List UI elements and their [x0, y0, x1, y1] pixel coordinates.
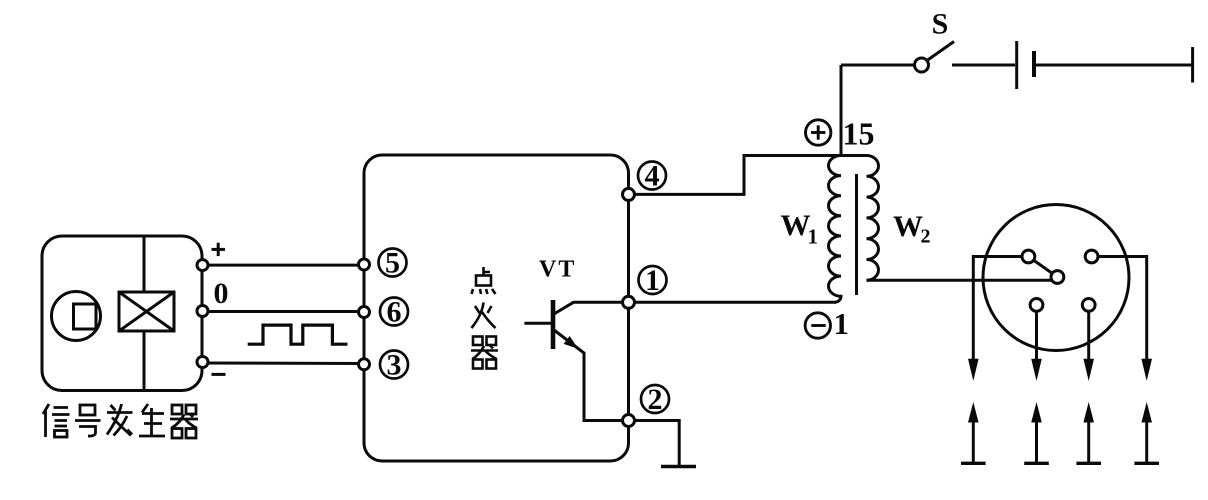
battery positive plate — [1015, 41, 1018, 89]
rotor arm — [1028, 257, 1057, 278]
terminal 2 — [623, 415, 635, 427]
svg-text:VT: VT — [539, 257, 576, 283]
distributor contact top-left — [1022, 250, 1035, 263]
ignition coil primary winding W1 — [829, 156, 842, 303]
ground — [661, 465, 696, 468]
svg-text:5: 5 — [385, 247, 400, 280]
terminal 4 — [623, 188, 635, 200]
terminal + on signal generator — [197, 260, 208, 271]
coil core — [855, 174, 858, 295]
signal generator box — [42, 236, 202, 391]
square wave symbol — [248, 325, 348, 344]
battery feed wire (down to coil +15) — [840, 65, 843, 156]
transistor VT base bar — [551, 300, 556, 349]
emitter arrowhead — [564, 336, 579, 349]
label + — [212, 243, 226, 256]
svg-text:4: 4 — [645, 160, 660, 193]
label circled 6 — [380, 298, 408, 326]
char 火 — [472, 303, 496, 329]
char 号 — [75, 405, 101, 436]
wire terminal 2 to ground — [635, 421, 680, 467]
svg-text:S: S — [932, 8, 949, 41]
wire switch to battery — [952, 64, 1015, 67]
igniter box — [364, 155, 629, 461]
wire + to terminal 5 — [203, 264, 365, 267]
char 发 — [107, 404, 133, 436]
HT wire coil to distributor rotor — [867, 279, 1053, 282]
switch S blade — [927, 42, 954, 61]
svg-text:1: 1 — [645, 264, 660, 297]
arrowhead down 2 — [1031, 359, 1042, 381]
label circled 1 — [639, 266, 667, 294]
transistor collector + wire to terminal 1 and W1 bottom — [553, 302, 836, 314]
spark plug 3 electrode — [1076, 402, 1101, 463]
pickup coil circle — [52, 292, 101, 341]
ignition coil secondary winding W2 — [867, 156, 879, 281]
battery end terminal bar — [1191, 47, 1194, 83]
signal generator divider wire — [143, 236, 146, 391]
spark plug 1 electrode — [961, 402, 986, 463]
wire - to terminal 3 — [203, 362, 365, 366]
terminal 5 — [359, 259, 370, 270]
char 器 — [471, 337, 498, 369]
coil terminal marker circled minus — [805, 313, 830, 338]
svg-text:W: W — [781, 209, 811, 242]
sensor crossed box — [119, 292, 174, 331]
terminal 0 on signal generator — [197, 306, 208, 317]
label circled 4 — [638, 162, 666, 190]
char 生 — [139, 404, 165, 436]
distributor contact bottom-right — [1082, 299, 1095, 312]
svg-text:2: 2 — [921, 226, 931, 248]
char 点 — [472, 267, 496, 294]
wire 0 to terminal 6 — [203, 310, 365, 313]
output wire 4 (right outer) — [1098, 257, 1147, 361]
svg-text:W: W — [893, 210, 923, 243]
svg-text:6: 6 — [387, 296, 402, 329]
distributor contact bottom-left — [1030, 299, 1043, 312]
rotor center contact — [1051, 271, 1064, 284]
terminal 1 — [623, 296, 635, 308]
terminal - on signal generator — [197, 357, 208, 368]
distributor contact top-right — [1085, 250, 1098, 263]
svg-text:0: 0 — [214, 277, 229, 310]
output wire 3 — [1087, 311, 1090, 360]
label circled 3 — [380, 351, 408, 379]
arrowhead down 4 — [1141, 359, 1152, 381]
coil terminal marker circled plus — [806, 120, 831, 145]
transistor emitter — [554, 330, 630, 421]
spark plug 2 electrode — [1024, 402, 1049, 463]
svg-text:1: 1 — [808, 225, 819, 249]
pickup core square — [74, 304, 97, 329]
label circled 5 — [379, 249, 407, 277]
terminal 3 — [359, 359, 370, 370]
battery negative plate — [1032, 51, 1036, 77]
arrowhead down 1 — [968, 359, 979, 381]
label circled 2 — [641, 385, 669, 413]
svg-text:1: 1 — [834, 306, 850, 341]
label 信号发生器 — [43, 404, 198, 438]
spark plug 4 electrode — [1134, 402, 1159, 463]
char 信 — [43, 404, 70, 437]
label 点火器 (vertical) — [471, 267, 498, 369]
output wire 1 (left outer) — [973, 257, 1022, 361]
wire to switch — [841, 64, 915, 67]
svg-text:15: 15 — [843, 116, 875, 152]
transistor base lead wire — [524, 322, 553, 325]
wire battery to end terminal — [1036, 64, 1193, 67]
svg-text:2: 2 — [648, 383, 663, 416]
terminal 6 — [359, 307, 370, 318]
arrowhead down 3 — [1083, 359, 1094, 381]
svg-text:3: 3 — [387, 349, 402, 382]
char 器 — [170, 405, 198, 438]
label - — [212, 373, 226, 376]
distributor cap circle — [983, 205, 1129, 351]
wire terminal 4 to coil top — [635, 156, 867, 195]
output wire 2 — [1035, 311, 1038, 360]
switch S contact circle — [915, 58, 929, 72]
